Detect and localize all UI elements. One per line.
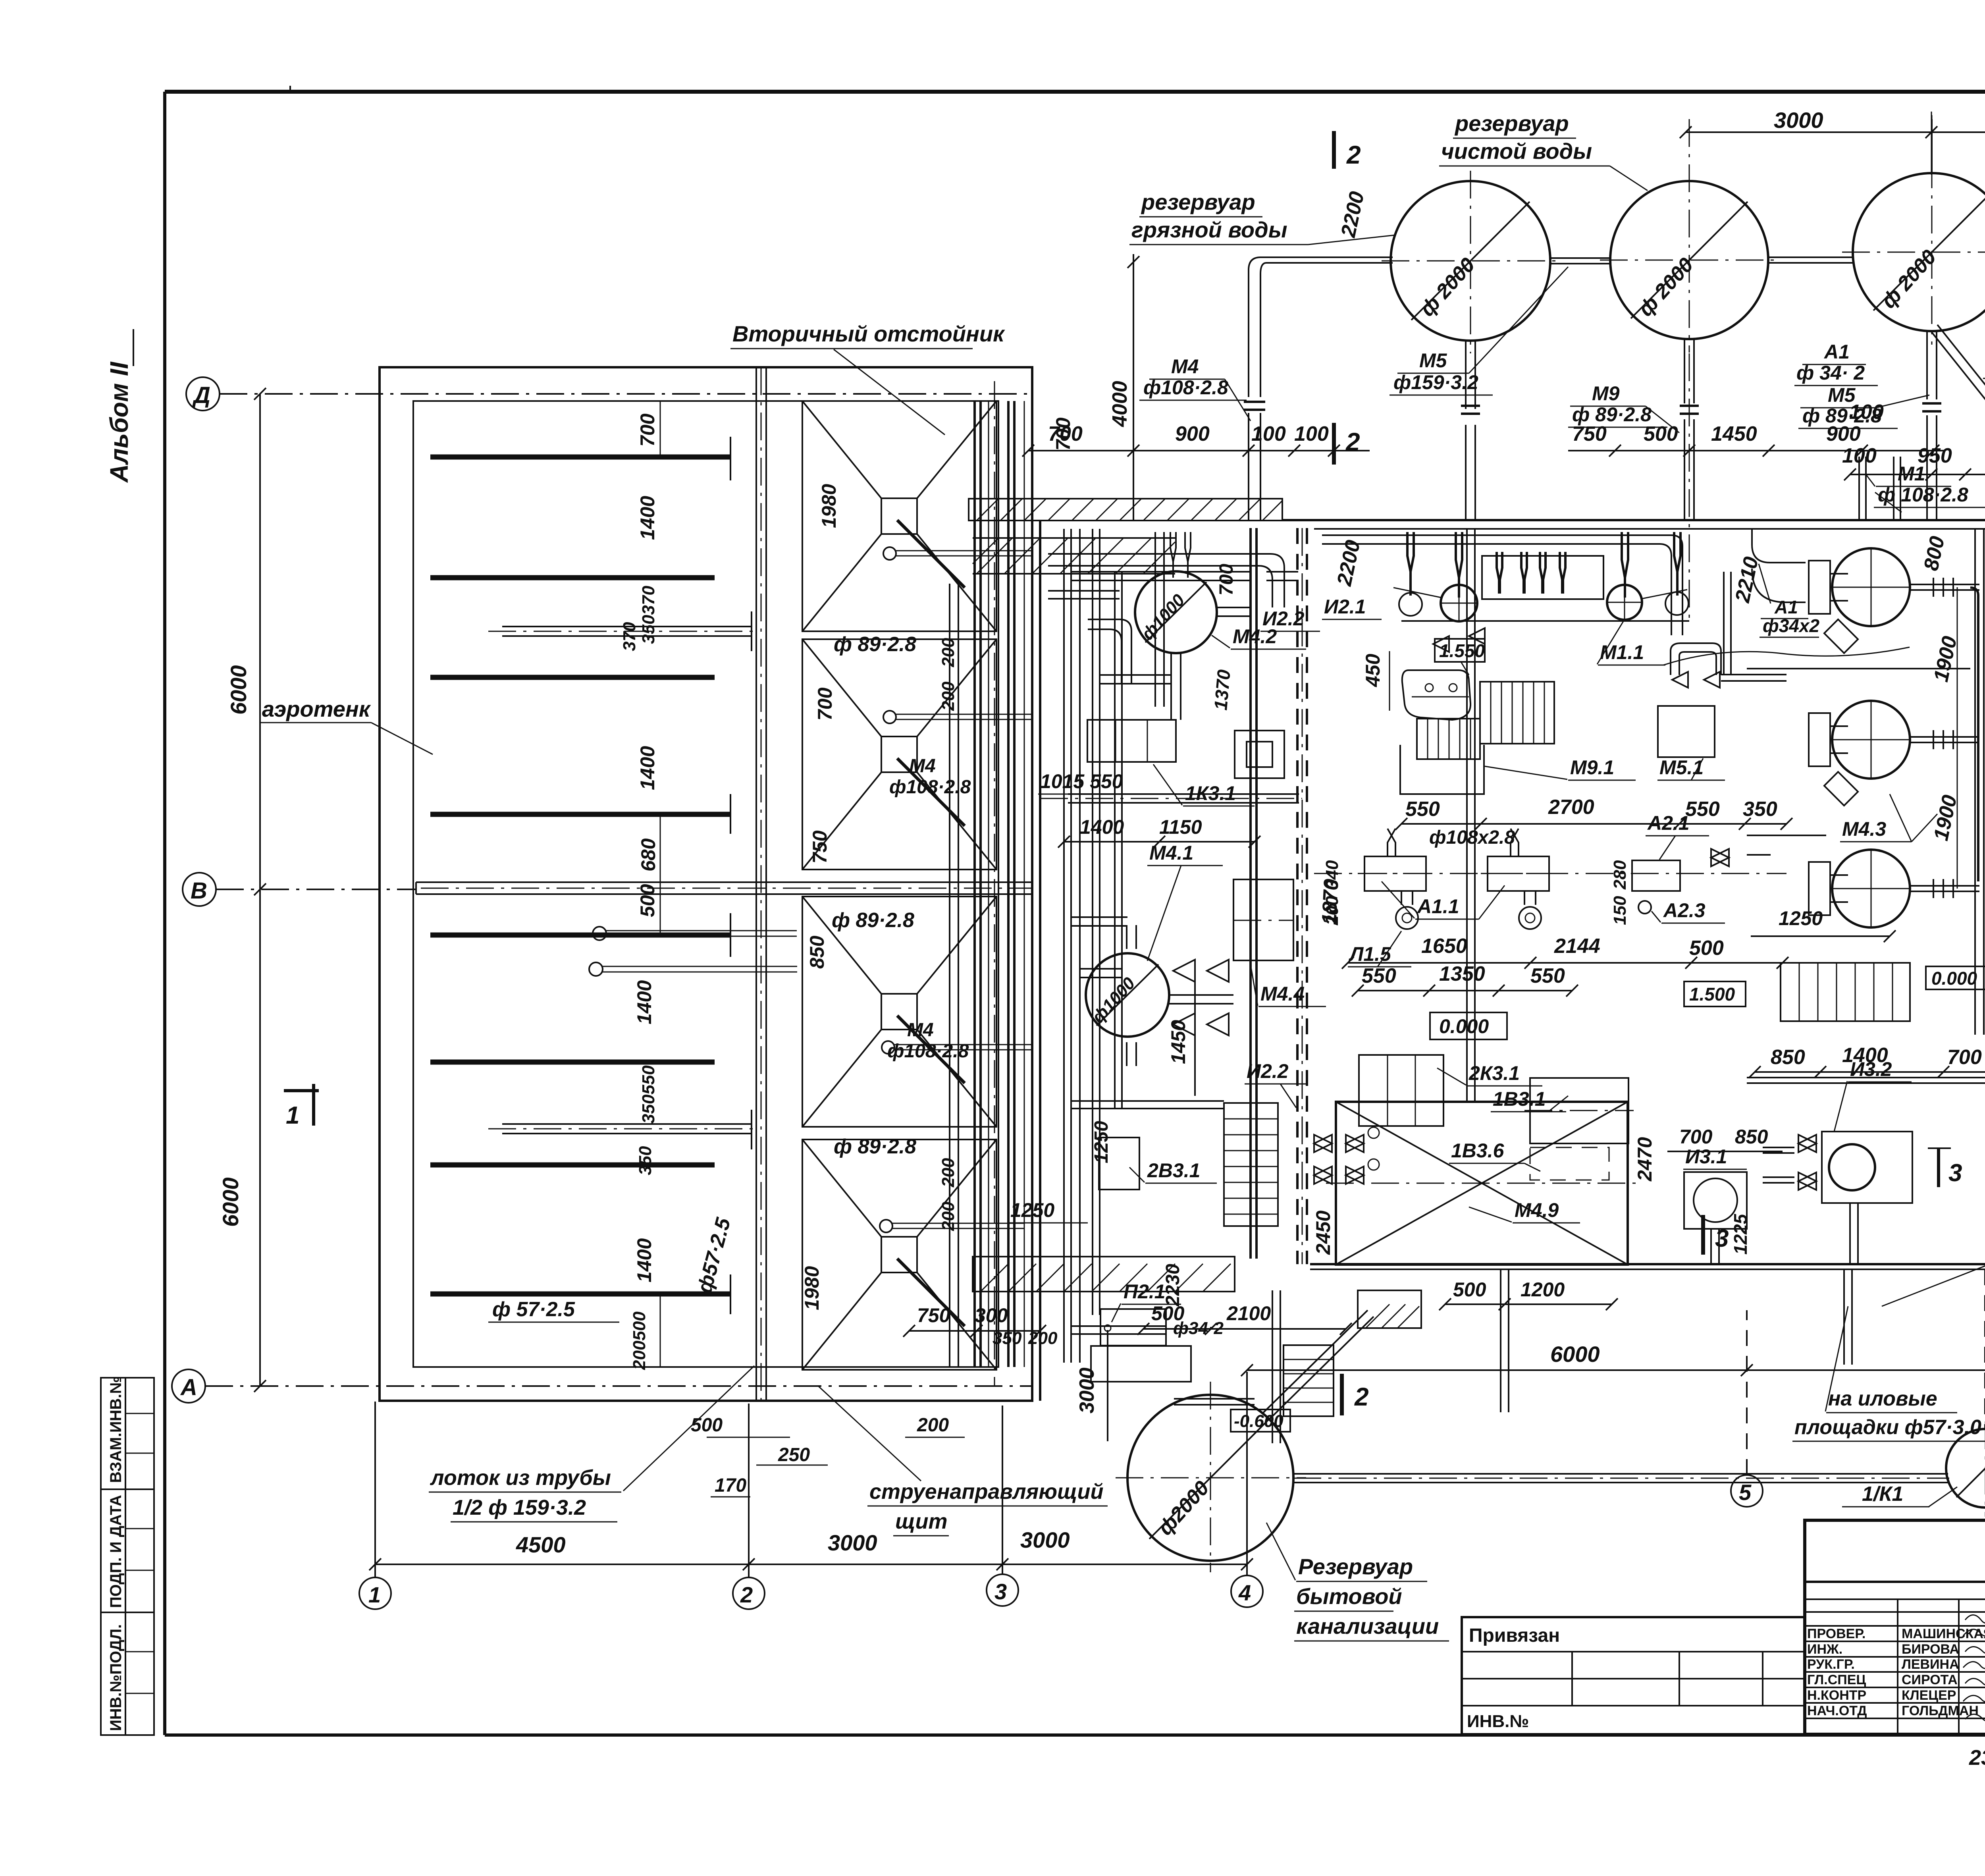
svg-text:450: 450	[1362, 654, 1384, 687]
svg-text:А2.1: А2.1	[1647, 812, 1690, 834]
svg-text:1/2 ф 159·3.2: 1/2 ф 159·3.2	[453, 1496, 586, 1519]
svg-text:М4: М4	[907, 1020, 934, 1041]
svg-text:П2.1: П2.1	[1124, 1280, 1165, 1303]
svg-text:750: 750	[917, 1304, 950, 1327]
pipes under I3 blocks	[1711, 1203, 1858, 1265]
svg-text:1: 1	[286, 1102, 299, 1129]
svg-text:850: 850	[1771, 1046, 1805, 1069]
svg-text:3000: 3000	[1075, 1367, 1098, 1413]
left wall of central hall	[1039, 521, 1041, 1401]
svg-text:ф 89·2.8: ф 89·2.8	[834, 1135, 916, 1158]
svg-text:КЛЕЦЕР: КЛЕЦЕР	[1902, 1688, 1956, 1703]
stamp boxes	[101, 1378, 154, 1735]
household sewage tank f2000	[1116, 1382, 1306, 1572]
block 2K3.1	[1359, 1055, 1542, 1126]
svg-text:2: 2	[1345, 428, 1360, 456]
riser C1 bottom	[1466, 341, 1475, 520]
diagonal pipe from tank	[1262, 1310, 1374, 1420]
big bent pipe loop A	[1048, 554, 1284, 607]
tank C1 dirty water	[1382, 171, 1560, 353]
stairs top flight	[1480, 682, 1554, 744]
svg-text:М4.3: М4.3	[1842, 818, 1886, 840]
center line through equipment	[1314, 873, 1786, 874]
svg-text:700: 700	[1679, 1126, 1713, 1148]
svg-text:площадки ф57·3.0: площадки ф57·3.0	[1794, 1416, 1981, 1439]
svg-text:ПОДП. И ДАТА: ПОДП. И ДАТА	[107, 1495, 125, 1608]
svg-text:500: 500	[1644, 422, 1678, 445]
svg-text:1400: 1400	[633, 980, 655, 1024]
svg-text:ИНВ.№ПОДЛ.: ИНВ.№ПОДЛ.	[107, 1624, 125, 1731]
dim 6000-6000 bottom	[1247, 1369, 1985, 1371]
channel line 2	[430, 575, 715, 580]
bottom dim chain 4500-3000-3000	[375, 1564, 1247, 1565]
svg-text:2470: 2470	[1634, 1137, 1656, 1182]
section 2 top	[1332, 423, 1336, 465]
svg-text:2: 2	[740, 1582, 753, 1607]
svg-text:0.000: 0.000	[1439, 1015, 1489, 1037]
svg-text:БИРОВА: БИРОВА	[1902, 1642, 1959, 1657]
svg-text:Привязан: Привязан	[1469, 1625, 1560, 1646]
axis 1	[359, 1577, 391, 1609]
svg-text:23128-01: 23128-01	[1969, 1746, 1985, 1770]
svg-text:2: 2	[1354, 1382, 1369, 1411]
svg-text:И2.1: И2.1	[1324, 596, 1366, 618]
svg-text:4500: 4500	[516, 1532, 566, 1557]
svg-text:2144: 2144	[1554, 935, 1600, 958]
CENTRALEQUIP	[950, 189, 1985, 1443]
top dim chain y1135	[1028, 450, 1370, 451]
svg-text:МАШИНСКАЯ: МАШИНСКАЯ	[1902, 1626, 1985, 1641]
P2.1 lower block	[1091, 1346, 1191, 1382]
block 1V3.1	[1491, 1078, 1634, 1143]
svg-text:3000: 3000	[828, 1530, 877, 1555]
outdoor stair I2.2 exit	[1284, 1345, 1334, 1416]
svg-text:В: В	[191, 878, 207, 904]
rotary pipe lower	[502, 1110, 752, 1149]
A1.1 blocks	[1358, 829, 1556, 929]
svg-text:ф 89·2.8: ф 89·2.8	[834, 633, 916, 656]
square block with inner	[1235, 731, 1284, 778]
svg-text:резервуар: резервуар	[1141, 189, 1255, 214]
svg-text:грязной воды: грязной воды	[1131, 217, 1287, 242]
svg-text:3000: 3000	[1020, 1527, 1070, 1552]
M1 candles	[1859, 457, 1900, 520]
AXES	[172, 377, 1985, 1609]
svg-text:3: 3	[994, 1579, 1007, 1604]
LEFTBUILDING	[260, 367, 1032, 1401]
signatures squiggles	[1963, 1615, 1985, 1721]
svg-text:М4: М4	[909, 756, 936, 777]
svg-text:3: 3	[1948, 1159, 1962, 1187]
tank f1000 M4.2	[1135, 571, 1306, 653]
svg-text:2К3.1: 2К3.1	[1469, 1062, 1520, 1084]
svg-text:Н.КОНТР: Н.КОНТР	[1807, 1688, 1866, 1703]
valves between M4.1 and M4.4	[1173, 960, 1229, 1035]
axis 3	[987, 1574, 1018, 1606]
svg-text:6000: 6000	[218, 1177, 243, 1227]
svg-text:СИРОТА: СИРОТА	[1902, 1672, 1958, 1687]
svg-text:ЛЕВИНА: ЛЕВИНА	[1902, 1657, 1959, 1672]
svg-text:550: 550	[1362, 964, 1396, 987]
pipes from tanks to risers	[1910, 584, 1979, 891]
channel line 6	[430, 1060, 715, 1065]
svg-text:2450: 2450	[1312, 1211, 1334, 1255]
TOPCIRCLES	[1022, 108, 1985, 619]
svg-text:1400: 1400	[1080, 816, 1124, 838]
riser C3	[1927, 332, 1937, 520]
svg-text:М5: М5	[1419, 349, 1447, 372]
svg-text:1250: 1250	[1091, 1121, 1112, 1163]
svg-text:170: 170	[715, 1475, 746, 1496]
svg-text:700: 700	[1947, 1046, 1982, 1069]
svg-text:И2.2: И2.2	[1247, 1060, 1289, 1082]
sampler circle a	[593, 927, 606, 940]
svg-text:500: 500	[1151, 1302, 1185, 1325]
svg-text:ИНВ.№: ИНВ.№	[1467, 1712, 1529, 1731]
bottom wall right part	[1310, 1263, 1985, 1265]
bent pipe into M4.2	[1088, 619, 1131, 683]
svg-text:на иловые: на иловые	[1828, 1387, 1937, 1410]
svg-text:850: 850	[1735, 1126, 1768, 1148]
axis A	[172, 1369, 205, 1403]
svg-text:700: 700	[636, 413, 659, 447]
I3.1 block	[1683, 1145, 1747, 1229]
I3.2 block	[1763, 1058, 1912, 1203]
candle row top	[1407, 532, 1681, 598]
svg-text:200: 200	[939, 1158, 958, 1188]
svg-text:РУК.ГР.: РУК.ГР.	[1807, 1657, 1855, 1672]
svg-text:350550: 350550	[639, 1065, 658, 1124]
svg-text:ГЛ.СПЕЦ: ГЛ.СПЕЦ	[1807, 1672, 1866, 1687]
svg-text:200: 200	[939, 1201, 958, 1231]
svg-text:340: 340	[1322, 860, 1342, 889]
svg-text:4000: 4000	[1108, 381, 1131, 427]
axis D	[186, 377, 220, 411]
svg-text:ВЗАМ.ИНВ.№: ВЗАМ.ИНВ.№	[107, 1376, 125, 1483]
TITLEBLOCK	[1462, 1520, 1985, 1770]
riser pipe C1 left loop	[1249, 257, 1393, 520]
candles hall left	[1170, 532, 1176, 578]
pipe from M4.2 right	[1217, 607, 1251, 616]
M1.1 circles	[1393, 556, 1689, 621]
second hatch band walkway	[973, 538, 1175, 574]
svg-text:ИНЖ.: ИНЖ.	[1807, 1642, 1842, 1657]
block P2.1	[1100, 1280, 1181, 1346]
svg-text:200500: 200500	[630, 1311, 649, 1370]
horizontal room dividers	[1747, 668, 1970, 669]
extra vertical runs corridor	[1093, 529, 1100, 1315]
svg-text:850: 850	[806, 935, 828, 969]
stairs lower flight	[1417, 719, 1480, 759]
BOTTOMAREA	[903, 1282, 1985, 1641]
svg-text:А2.3: А2.3	[1663, 899, 1706, 922]
left vertical run	[1071, 529, 1080, 1363]
block M4.4	[1233, 879, 1326, 1006]
lower yard pipes	[1174, 1399, 1255, 1405]
svg-text:А1: А1	[1823, 341, 1850, 363]
svg-text:1400: 1400	[1842, 1044, 1888, 1067]
svg-text:1225: 1225	[1730, 1213, 1751, 1255]
svg-text:680: 680	[637, 838, 659, 871]
svg-text:550: 550	[1685, 798, 1720, 821]
svg-text:М1.1: М1.1	[1600, 641, 1644, 663]
border left	[163, 92, 166, 1735]
pipe below M4.2	[1171, 653, 1181, 720]
vertical risers	[1975, 529, 1984, 1035]
svg-text:900: 900	[1175, 422, 1210, 445]
svg-text:Д: Д	[192, 382, 210, 408]
svg-text:3: 3	[1715, 1225, 1729, 1252]
svg-text:280: 280	[1610, 860, 1630, 890]
svg-text:900: 900	[1826, 422, 1861, 445]
svg-text:100: 100	[1294, 422, 1329, 445]
valve pairs on riser	[1711, 849, 1771, 866]
svg-text:1250: 1250	[1010, 1199, 1054, 1221]
channel line 3	[430, 675, 715, 680]
left 6000 dims	[259, 394, 261, 1386]
svg-text:200: 200	[939, 638, 958, 667]
horizontal pipe right	[1293, 1474, 1948, 1483]
top wall main	[1282, 519, 1985, 521]
svg-text:аэротенк: аэротенк	[262, 696, 371, 721]
top inner pipe run	[1322, 535, 1682, 635]
border top	[165, 90, 1985, 94]
svg-text:700: 700	[814, 687, 836, 721]
svg-text:щит: щит	[895, 1510, 948, 1533]
main title block	[1805, 1520, 1985, 1734]
stairs I2.2	[1224, 1060, 1308, 1226]
svg-text:6000: 6000	[1550, 1342, 1600, 1367]
tank M4.9	[1312, 1102, 1656, 1265]
mark 1.500	[1684, 981, 1746, 1006]
svg-text:чистой воды: чистой воды	[1441, 139, 1592, 164]
svg-text:200: 200	[939, 681, 958, 711]
CLARIFIER	[429, 321, 1108, 1536]
svg-text:1400: 1400	[636, 746, 659, 790]
aerotank channel line 1	[430, 455, 730, 460]
svg-text:струенаправляющий: струенаправляющий	[869, 1480, 1104, 1504]
border bottom	[165, 1733, 1985, 1737]
svg-text:ф108·2.8: ф108·2.8	[887, 1041, 969, 1062]
svg-text:ф 57·2.5: ф 57·2.5	[492, 1298, 575, 1321]
tank row with flanges	[1809, 548, 1910, 653]
dim chain right y1195	[1850, 474, 1985, 475]
outer wall	[380, 367, 1032, 1401]
sludge pipe vertical in clarifier	[950, 584, 958, 1368]
svg-text:1В3.6: 1В3.6	[1451, 1139, 1505, 1162]
svg-text:И2.2: И2.2	[1262, 607, 1305, 630]
pipe drop right of M1.1	[1724, 572, 1731, 675]
svg-text:5: 5	[1739, 1480, 1752, 1505]
svg-text:1250: 1250	[1779, 907, 1823, 929]
svg-text:0.000: 0.000	[1931, 968, 1977, 989]
svg-text:М4.9: М4.9	[1515, 1199, 1559, 1221]
svg-text:1350: 1350	[1439, 962, 1485, 985]
svg-text:Вторичный отстойник: Вторичный отстойник	[732, 321, 1005, 346]
svg-text:1450: 1450	[1711, 422, 1757, 445]
svg-text:3000: 3000	[1774, 108, 1823, 133]
svg-text:1200: 1200	[1521, 1278, 1565, 1301]
left guide wall pair	[756, 367, 766, 1401]
svg-text:ф108х2.8: ф108х2.8	[1429, 827, 1515, 848]
svg-text:200: 200	[917, 1415, 949, 1436]
svg-text:2: 2	[1346, 141, 1361, 169]
svg-text:1980: 1980	[818, 484, 840, 528]
svg-text:бытовой: бытовой	[1296, 1584, 1402, 1609]
pump tank f1000 M4.1	[1086, 842, 1223, 1066]
svg-text:1: 1	[368, 1582, 381, 1607]
svg-text:Альбом II: Альбом II	[105, 361, 133, 483]
drop pipes below building	[1501, 1269, 1509, 1412]
svg-text:А: А	[180, 1375, 197, 1400]
end posts	[730, 437, 731, 480]
small tank f1000	[1946, 1421, 1985, 1517]
rotary pipe upper	[502, 611, 752, 651]
svg-text:И3.1: И3.1	[1685, 1145, 1727, 1168]
mark -0.600 yard	[1231, 1409, 1290, 1432]
channel line 4	[430, 812, 730, 817]
long axis pipe	[416, 882, 1032, 894]
svg-text:1400: 1400	[636, 496, 659, 540]
svg-text:лоток из трубы: лоток из трубы	[430, 1466, 611, 1490]
svg-text:Л1.5: Л1.5	[1349, 943, 1391, 965]
axis 5	[1731, 1475, 1763, 1507]
stairs bottom left	[1781, 963, 1910, 1021]
funnel 1	[802, 401, 1032, 631]
svg-text:100: 100	[1849, 401, 1884, 424]
svg-text:1150: 1150	[1159, 816, 1202, 838]
funnel 4	[802, 1139, 1024, 1370]
small hatched block	[1358, 1290, 1421, 1328]
I2.1 channel dashed	[1297, 528, 1307, 1264]
LEFTSTAMP	[101, 329, 154, 1735]
svg-text:1450: 1450	[1167, 1020, 1189, 1064]
axis V	[183, 873, 216, 906]
svg-text:1015 550: 1015 550	[1040, 770, 1123, 792]
pipe loop right	[1671, 643, 1721, 675]
svg-text:1400: 1400	[633, 1238, 655, 1282]
svg-text:350: 350	[1743, 798, 1777, 821]
svg-text:резервуар: резервуар	[1454, 111, 1569, 136]
svg-text:500: 500	[691, 1415, 723, 1436]
C1 riser through building	[1467, 529, 1475, 1102]
svg-text:ГОЛЬДМАН: ГОЛЬДМАН	[1902, 1703, 1979, 1718]
C2 centre line into building	[1689, 353, 1690, 619]
svg-text:350: 350	[636, 1146, 655, 1175]
bottom hatched band left	[973, 1257, 1235, 1292]
svg-text:4: 4	[1238, 1580, 1251, 1605]
svg-text:500: 500	[1453, 1278, 1486, 1301]
horizontal jog pipes	[1100, 675, 1171, 684]
svg-text:1650: 1650	[1421, 935, 1467, 958]
svg-text:2100: 2100	[1226, 1302, 1271, 1325]
funnel 2	[802, 639, 1032, 870]
svg-text:250: 250	[778, 1444, 810, 1465]
svg-text:А1: А1	[1774, 597, 1798, 617]
svg-text:1В3.1: 1В3.1	[1493, 1088, 1546, 1110]
riser break ticks	[1244, 402, 1985, 421]
valve cluster left of 2K3.1	[1314, 1135, 1364, 1152]
svg-text:700: 700	[1048, 422, 1083, 445]
block 2V3.1	[1008, 1138, 1217, 1223]
svg-text:350370: 350370	[639, 586, 658, 644]
section T3 mark	[1937, 1147, 1940, 1187]
mark 0.000	[1926, 966, 1985, 989]
axis 2	[733, 1577, 765, 1609]
top tick mark	[289, 86, 291, 92]
svg-text:1/К1: 1/К1	[1862, 1483, 1903, 1506]
svg-text:М5.1: М5.1	[1659, 756, 1704, 779]
A2.1 block	[1632, 812, 1725, 923]
svg-text:1370: 1370	[1210, 669, 1234, 711]
riser C2	[1684, 340, 1694, 520]
svg-text:300: 300	[975, 1304, 1008, 1327]
svg-text:100: 100	[1842, 444, 1877, 467]
dim column line	[660, 401, 661, 457]
svg-text:750: 750	[1572, 422, 1607, 445]
svg-text:1980: 1980	[801, 1266, 823, 1310]
channel line 5	[430, 933, 730, 938]
axis 4	[1231, 1575, 1263, 1607]
riser C4 diagonal	[1930, 325, 1985, 520]
M9.1 bracket	[1400, 745, 1636, 794]
svg-text:100: 100	[1251, 422, 1286, 445]
channel line 8	[430, 1292, 730, 1297]
section mark 1 left	[284, 1084, 319, 1126]
sampler circle b	[589, 962, 603, 976]
svg-text:200: 200	[1322, 896, 1342, 925]
svg-text:700: 700	[1216, 564, 1237, 596]
svg-text:канализации: канализации	[1296, 1614, 1439, 1639]
privyazan box	[1462, 1617, 1805, 1734]
big pipes horizontal central	[1068, 794, 1299, 803]
I2.1 left big pipe	[1251, 528, 1257, 1259]
block 1K3.1	[1038, 720, 1255, 806]
svg-text:М4: М4	[1171, 355, 1199, 378]
right pipe cluster	[975, 401, 1014, 1367]
svg-text:2230: 2230	[1162, 1264, 1183, 1307]
M5.1 block	[1657, 706, 1725, 780]
svg-text:ПРОВЕР.: ПРОВЕР.	[1807, 1626, 1866, 1641]
1V3.6 dashed block	[1449, 1139, 1609, 1180]
svg-text:550: 550	[1530, 964, 1565, 987]
svg-text:ф 89·2.8: ф 89·2.8	[832, 909, 914, 932]
connecting pipes	[1550, 255, 1985, 264]
CENTRALWALLS	[969, 330, 1985, 1401]
section 2 bottom	[1340, 1374, 1344, 1415]
valves above sink	[1433, 628, 1485, 652]
svg-text:2В3.1: 2В3.1	[1147, 1159, 1200, 1182]
svg-text:НАЧ.ОТД: НАЧ.ОТД	[1807, 1703, 1867, 1718]
funnel 3	[802, 897, 1032, 1127]
signature rows	[1805, 1599, 1985, 1734]
svg-text:А1.1: А1.1	[1416, 895, 1459, 918]
svg-text:370: 370	[620, 622, 639, 651]
elbow pipe top left	[1752, 529, 1806, 602]
mark 0.000 central	[1430, 1012, 1507, 1039]
svg-text:6000: 6000	[226, 665, 251, 715]
svg-text:М9: М9	[1592, 382, 1620, 405]
svg-text:500: 500	[1689, 937, 1724, 960]
svg-text:500: 500	[636, 884, 659, 917]
svg-text:550: 550	[1405, 798, 1440, 821]
inner wall	[413, 401, 998, 1367]
dim 4000	[1133, 254, 1134, 520]
RIGHTSECTION	[1711, 524, 1985, 1306]
svg-text:950: 950	[1918, 444, 1952, 467]
section 3 mark	[1701, 1215, 1705, 1255]
mark 1.550	[1435, 639, 1485, 675]
